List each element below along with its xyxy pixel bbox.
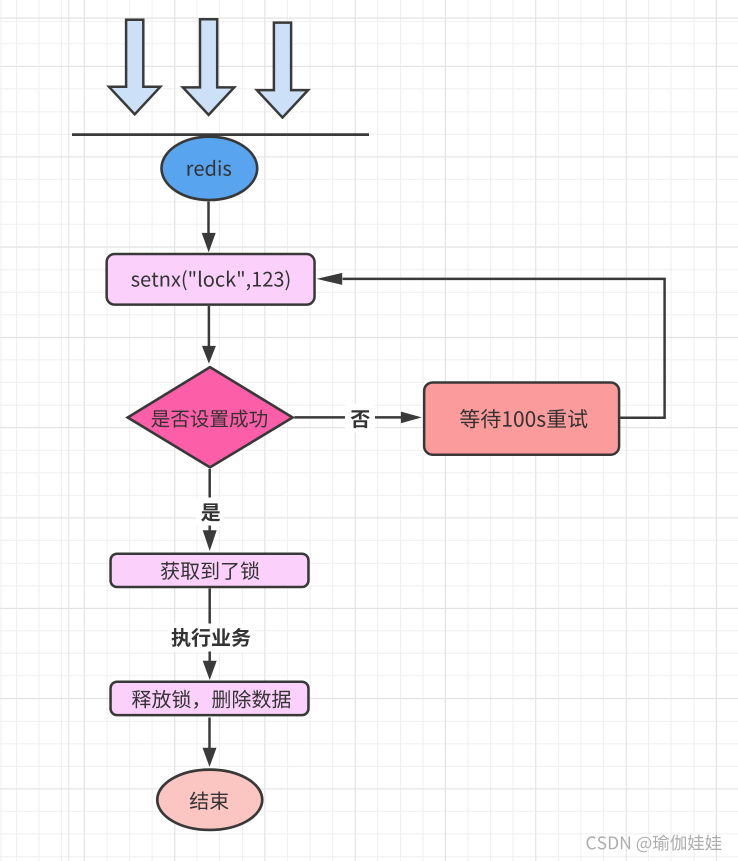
ellipse: 结束 (end node) bbox=[157, 770, 262, 830]
wire: setnx to diamond (vertical arrow) bbox=[202, 306, 216, 364]
big arrow 3 (top-right fat down arrow) bbox=[257, 23, 308, 118]
box: 释放锁，删除数据 (release lock, delete data) bbox=[111, 682, 309, 715]
wire: 释放锁 box to end ellipse (vertical arrow) bbox=[203, 718, 217, 767]
wire: diamond to 获取到了锁 box (vertical, label 是) bbox=[203, 469, 217, 551]
label 否 (no) on wire bbox=[345, 404, 375, 433]
watermark: CSDN @瑜伽娃娃 bbox=[587, 835, 722, 853]
diamond: 是否设置成功 (decision) bbox=[128, 367, 293, 467]
box: 等待100s重试 (wait & retry) bbox=[424, 382, 619, 454]
big arrow 1 (top-left fat down arrow) bbox=[109, 20, 160, 115]
wire: 获取到了锁 to 释放锁 box (vertical, label 执行业务) bbox=[203, 588, 217, 680]
label 是 (yes) on wire bbox=[196, 498, 224, 526]
ellipse: redis (start node) bbox=[162, 137, 258, 200]
wire: redis to setnx box (vertical arrow) bbox=[202, 201, 216, 252]
label 执行业务 (execute business) on wire bbox=[168, 624, 254, 652]
wire: wait box back to setnx (feedback loop right side) bbox=[317, 273, 665, 418]
box: 获取到了锁 (lock acquired) bbox=[111, 554, 309, 587]
wire: diamond to wait box (horizontal, label 否) bbox=[294, 412, 421, 424]
big arrow 2 (top-middle fat down arrow) bbox=[183, 19, 234, 115]
separator line above redis bbox=[72, 133, 369, 136]
box: setnx("lock",123) bbox=[107, 254, 315, 305]
